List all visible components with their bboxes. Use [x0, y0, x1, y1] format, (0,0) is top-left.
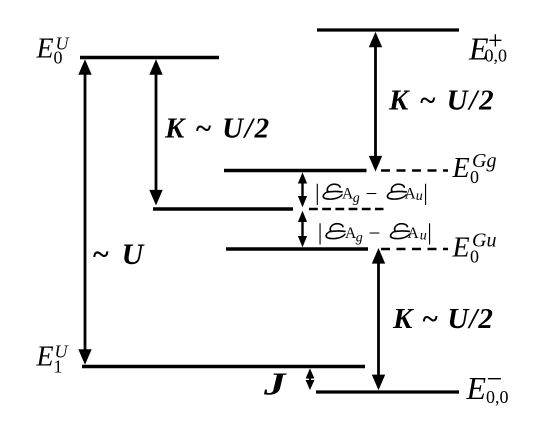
level line E0Gg solid: [224, 169, 367, 173]
svg-text:g: g: [353, 191, 360, 206]
arrow K bottom right (E0Gu to E00-): [372, 248, 385, 390]
arrow ~U (E0U to E1U): [78, 59, 91, 365]
svg-text:|: |: [427, 219, 432, 244]
svg-text:E: E: [452, 153, 470, 184]
arrow EAg-EAu lower (middle to E0Gu): [298, 211, 307, 247]
svg-text:A: A: [405, 186, 417, 203]
svg-text:0,0: 0,0: [485, 46, 508, 66]
svg-text:−: −: [369, 221, 381, 245]
svg-text:K ~ U/2: K ~ U/2: [388, 85, 495, 117]
label E0Gg: [452, 150, 497, 187]
label EAg-EAu lower: [318, 219, 432, 245]
label E0Gu: [452, 229, 497, 266]
svg-text:|: |: [315, 180, 320, 205]
svg-text:K ~ U/2: K ~ U/2: [392, 303, 494, 335]
label EAg-EAu upper: [315, 180, 428, 206]
svg-text:1: 1: [54, 357, 63, 377]
svg-text:|: |: [318, 219, 323, 244]
svg-text:u: u: [420, 228, 427, 243]
level line E1U: [82, 365, 365, 369]
label E1U: [36, 342, 69, 377]
svg-text:0,0: 0,0: [486, 387, 509, 407]
arrow J (E1U to E00-): [306, 368, 315, 390]
svg-text:0: 0: [470, 167, 479, 187]
svg-text:K ~ U/2: K ~ U/2: [164, 113, 271, 145]
svg-text:E: E: [36, 342, 54, 373]
level line E0Gu solid: [226, 247, 368, 251]
level line E0Gg dashed: [381, 169, 448, 171]
svg-text:A: A: [408, 225, 420, 242]
svg-text:0: 0: [54, 48, 63, 68]
label E00+: [468, 26, 507, 67]
svg-text:0: 0: [470, 247, 479, 267]
svg-text:J: J: [263, 367, 287, 402]
level line E00+: [317, 28, 459, 31]
svg-text:~ U: ~ U: [92, 238, 146, 271]
svg-text:E: E: [452, 233, 470, 264]
arrow EAg-EAu upper (E0Gg to middle): [298, 172, 307, 207]
arrow K left (E0U to middle): [149, 59, 162, 205]
svg-text:g: g: [356, 231, 363, 246]
label E00-: [466, 364, 509, 407]
svg-text:E: E: [36, 34, 54, 65]
svg-text:−: −: [366, 182, 378, 206]
level line E0Gu dashed: [381, 248, 448, 250]
svg-text:|: |: [423, 180, 428, 205]
svg-text:E: E: [466, 370, 487, 406]
label E0U: [36, 34, 70, 68]
level line middle solid: [153, 207, 293, 211]
arrow K top right (E00+ to E0Gg): [369, 32, 382, 172]
svg-text:u: u: [416, 189, 423, 204]
level line E0U: [80, 56, 219, 60]
level line E00-: [316, 390, 459, 393]
level line middle dashed: [309, 208, 384, 210]
